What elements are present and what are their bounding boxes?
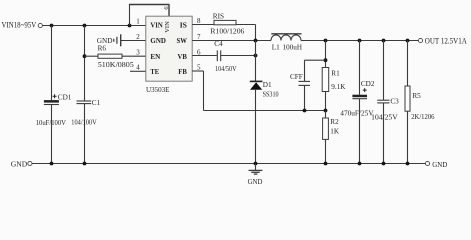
wire RIS to SW: [236, 25, 256, 41]
resistor R6: [98, 45, 122, 59]
junction dot R5 top: [406, 39, 410, 43]
svg-text:C4: C4: [214, 40, 223, 48]
svg-text:1: 1: [136, 17, 140, 25]
wire pin5 FB: [192, 71, 325, 111]
svg-text:4: 4: [136, 64, 140, 72]
node GND left terminal: [11, 160, 32, 169]
wire CD1 vertical: [51, 26, 53, 164]
svg-text:9.1K: 9.1K: [331, 83, 346, 91]
wire input rail: [42, 25, 145, 27]
svg-text:FB: FB: [178, 67, 187, 76]
svg-text:470uF/25V: 470uF/25V: [340, 109, 374, 117]
svg-text:C1: C1: [92, 99, 101, 107]
svg-text:104/50V: 104/50V: [215, 65, 237, 73]
wire R2 bottom: [325, 139, 327, 163]
wire pin9 loop: [129, 5, 170, 26]
svg-text:CD2: CD2: [361, 80, 375, 88]
wire R1 branch vertical: [325, 41, 327, 111]
svg-text:GND: GND: [150, 36, 166, 45]
junction dot CD1 top: [50, 24, 54, 28]
capacitor CFF: [290, 73, 310, 86]
svg-text:5: 5: [197, 64, 201, 72]
wire pin6 VB: [192, 55, 217, 57]
svg-text:104/25V: 104/25V: [371, 113, 398, 121]
wire pin4 stub: [130, 70, 146, 72]
wire C1 vertical: [84, 26, 86, 164]
svg-text:IS: IS: [180, 21, 187, 30]
svg-text:9: 9: [162, 6, 169, 9]
wire CFF branch: [305, 60, 326, 110]
junction dot C1 top: [83, 24, 87, 28]
junction dot R6 left: [83, 54, 87, 58]
capacitor CD1: [44, 94, 72, 105]
junction dot CFF bottom: [303, 109, 307, 113]
capacitor C1: [77, 99, 101, 107]
svg-text:R100/1206: R100/1206: [210, 28, 244, 36]
svg-text:TE: TE: [150, 67, 159, 76]
junction dot C3 top: [382, 39, 386, 43]
svg-text:7: 7: [197, 33, 201, 41]
diode D1: [250, 81, 272, 90]
svg-text:GND: GND: [248, 178, 263, 186]
svg-text:SS310: SS310: [263, 90, 279, 98]
svg-text:3: 3: [136, 48, 140, 56]
junction dot CFF branch: [324, 58, 328, 62]
svg-text:C3: C3: [390, 98, 399, 106]
svg-text:2K/1206: 2K/1206: [411, 113, 435, 121]
wire bottom rail: [32, 163, 425, 165]
resistor R1: [322, 68, 340, 92]
junction dot CD2 bottom: [358, 162, 362, 166]
node OUT terminal: [418, 36, 467, 45]
wire C3 vertical: [383, 41, 385, 164]
svg-text:VIN: VIN: [150, 21, 163, 30]
svg-text:10uF/100V: 10uF/100V: [36, 119, 67, 127]
wire R6 left: [85, 55, 99, 57]
svg-text:2: 2: [136, 33, 140, 41]
svg-text:SW: SW: [177, 36, 188, 45]
junction dot C1 bottom: [83, 162, 87, 166]
ground symbol bottom: [248, 164, 263, 186]
wire D1 vertical: [255, 41, 257, 164]
svg-text:510K/0805: 510K/0805: [98, 61, 134, 69]
resistor R2: [323, 118, 339, 139]
junction dot R1 top: [324, 39, 328, 43]
wire R5 vertical: [407, 41, 409, 164]
svg-text:VIN18~95V: VIN18~95V: [2, 21, 37, 30]
junction dot C4 D1: [254, 54, 258, 58]
wire pin8: [192, 24, 214, 26]
op-amp U1 IC U3503E box: [146, 16, 192, 81]
svg-text:D1: D1: [263, 81, 272, 89]
inductor L1: [271, 34, 302, 52]
junction dot FB node: [324, 109, 328, 113]
svg-text:L1: L1: [272, 44, 280, 52]
wire CD2 vertical: [359, 41, 361, 164]
resistor R5: [405, 86, 421, 111]
wire pin3: [122, 55, 146, 57]
capacitor CD2: [352, 80, 374, 99]
svg-text:R5: R5: [412, 92, 421, 100]
svg-text:GND: GND: [432, 160, 448, 169]
junction dot R5 bottom: [406, 162, 410, 166]
junction dot pin9 loop: [128, 24, 132, 28]
svg-text:EN: EN: [150, 52, 160, 61]
svg-text:GND: GND: [11, 160, 28, 169]
wire pin2: [121, 40, 146, 42]
capacitor C3: [377, 98, 399, 106]
junction dot CD1 bottom: [50, 162, 54, 166]
svg-text:VIN: VIN: [164, 21, 171, 33]
svg-text:RIS: RIS: [213, 12, 224, 20]
svg-text:CD1: CD1: [58, 94, 72, 102]
svg-text:1K: 1K: [330, 128, 340, 136]
junction dot C3 bottom: [382, 162, 386, 166]
junction dot SW D1: [254, 39, 258, 43]
svg-text:R6: R6: [98, 45, 107, 53]
svg-text:U3503E: U3503E: [146, 85, 170, 94]
resistor RIS: [213, 12, 236, 25]
wire R2 top: [325, 111, 327, 119]
wire output rail: [301, 40, 418, 42]
junction dot R2 bottom: [324, 162, 328, 166]
junction dot D1 bottom: [254, 162, 258, 166]
wire C4 right: [221, 55, 256, 57]
svg-text:OUT 12.5V1A: OUT 12.5V1A: [425, 36, 467, 45]
node VIN input terminal: [2, 21, 43, 30]
svg-text:104/100V: 104/100V: [71, 119, 97, 127]
svg-text:R1: R1: [331, 70, 340, 78]
node GND right terminal: [425, 160, 447, 169]
junction dot CD2 top: [358, 39, 362, 43]
ground pin2 sideways: [97, 34, 121, 46]
wire pin7 SW: [192, 40, 271, 42]
svg-text:VB: VB: [178, 52, 187, 61]
capacitor C4: [214, 40, 223, 61]
svg-text:R2: R2: [330, 118, 339, 126]
svg-text:100uH: 100uH: [283, 44, 302, 52]
svg-text:CFF: CFF: [290, 73, 303, 81]
